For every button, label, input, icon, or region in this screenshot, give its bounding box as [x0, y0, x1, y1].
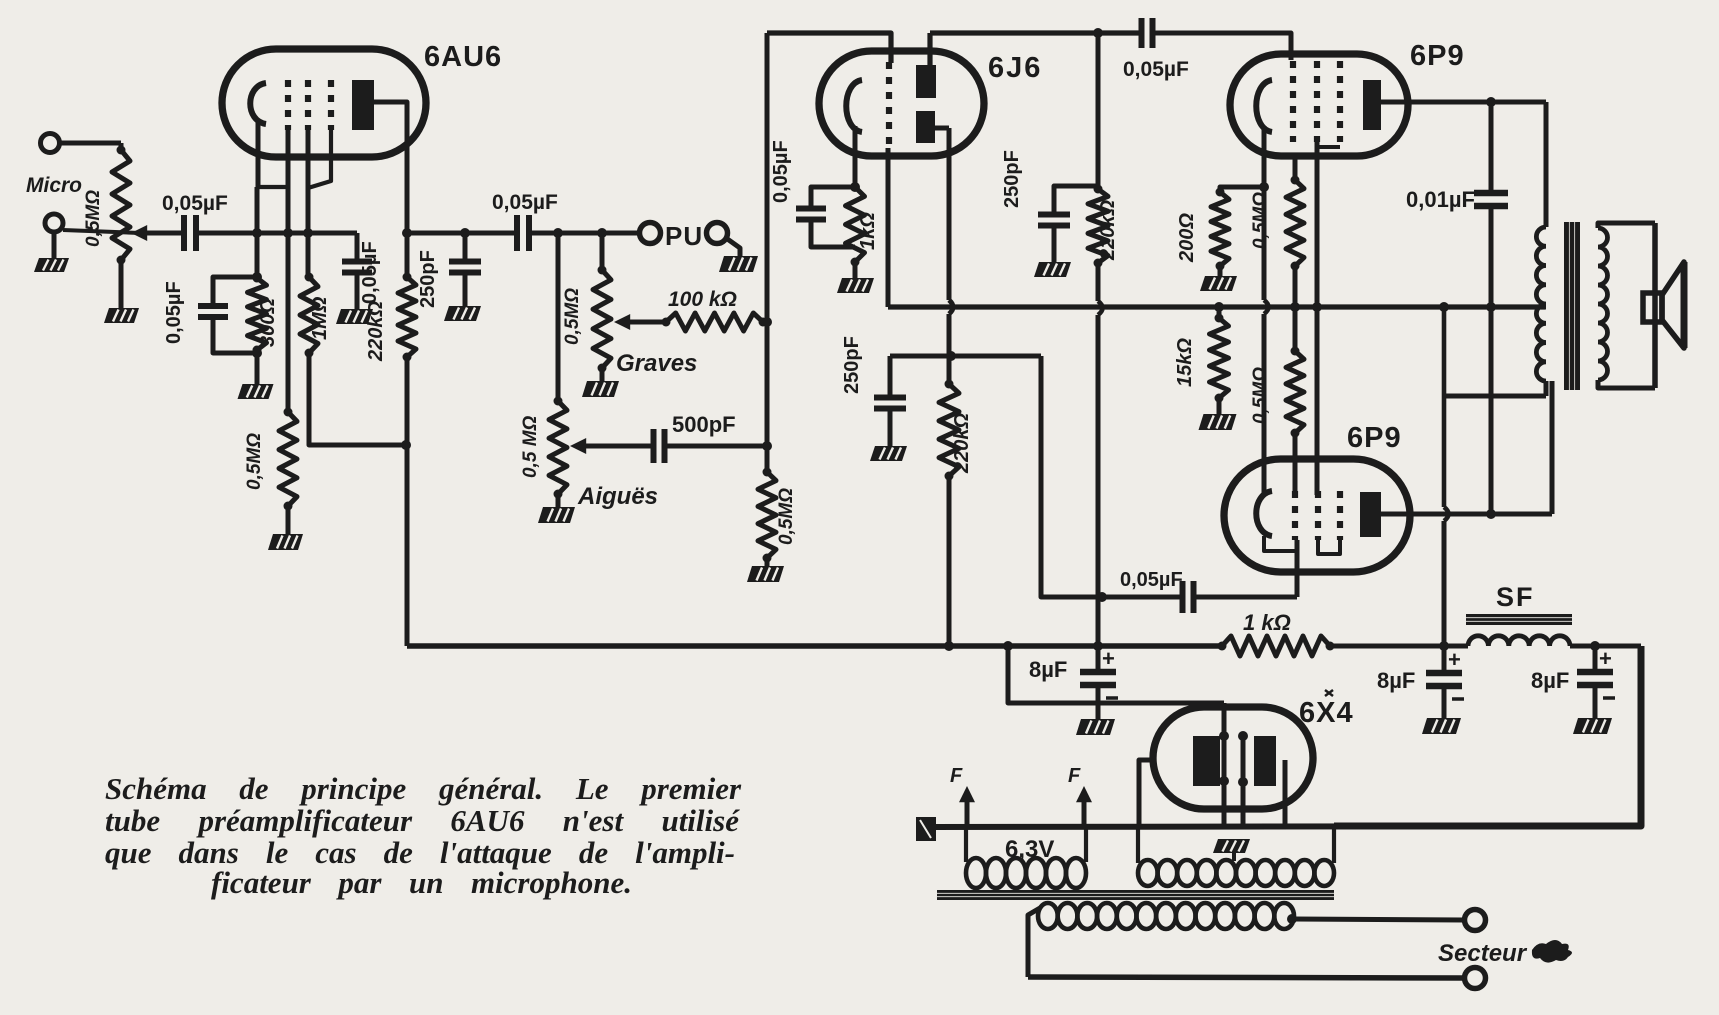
- resistor 0,5M (6AU6 grid leak): [279, 412, 297, 506]
- wire secteur line 1: [1294, 919, 1464, 920]
- svg-text:0,5 MΩ: 0,5 MΩ: [520, 415, 541, 478]
- resistor 220k (phase splitter): [947, 356, 952, 384]
- ground (6J6 cathode): [853, 262, 858, 278]
- wire B+ from rectifier: [1008, 646, 1224, 703]
- wire plate supply descender corner: [407, 643, 1222, 649]
- grid g1 6P9 no2 (dashed): [1292, 491, 1298, 540]
- F arrow 2: [1082, 798, 1087, 827]
- grid g3 6P9 no1 (dashed): [1337, 61, 1343, 142]
- resistor 0,5M (PU grid leak): [758, 472, 776, 558]
- svg-text:Graves: Graves: [616, 350, 697, 377]
- potentiometer 0.5M (micro volume): [112, 150, 130, 260]
- svg-text:0,5MΩ: 0,5MΩ: [83, 190, 104, 247]
- grid g1 6P9 no1 (dashed): [1290, 61, 1296, 142]
- ornament after Secteur: [1532, 940, 1572, 963]
- capacitor 250pF (6J6 plate1): [1038, 212, 1070, 218]
- wire 6J6 cathode pin: [853, 126, 858, 187]
- speaker frame: [1652, 223, 1658, 388]
- capacitor 0,05uF (top coupling): [1139, 18, 1145, 48]
- wire OPT secondary bottom to speaker: [1598, 380, 1655, 388]
- ground (8uF no2): [1422, 718, 1461, 734]
- resistor 300 ohm: [248, 278, 267, 350]
- winding HV secondary: [1038, 903, 1058, 929]
- wire OPT secondary top to speaker: [1598, 223, 1655, 228]
- resistor 0,5M no1: [1293, 156, 1298, 180]
- mic input terminal (hot): [41, 134, 60, 153]
- ground (PU): [726, 238, 740, 256]
- resistor 220k (6J6 plate load): [1096, 33, 1101, 189]
- plate 6P9 no1: [1363, 80, 1381, 130]
- wire plate2 riser to y356 line: [947, 128, 952, 300]
- plate 1 6J6: [916, 65, 936, 98]
- capacitor 0,05uF (6AU6 cathode bypass): [213, 277, 257, 306]
- svg-text:1kΩ: 1kΩ: [857, 212, 879, 250]
- tube 6AU6 envelope: [222, 49, 426, 157]
- tube 6X4 envelope: [1153, 707, 1313, 809]
- svg-text:1MΩ: 1MΩ: [309, 296, 331, 340]
- wire OPT primary top lead: [1544, 102, 1549, 227]
- winding 6,3V: [964, 827, 968, 862]
- plate left 6X4: [1193, 736, 1220, 786]
- PU terminal right: [707, 223, 728, 244]
- svg-text:220kΩ: 220kΩ: [1097, 200, 1119, 261]
- ground (mic sleeve): [34, 258, 69, 272]
- svg-text:6P9: 6P9: [1410, 40, 1465, 72]
- OPT secondary coil: [1598, 228, 1608, 380]
- svg-text:6J6: 6J6: [988, 52, 1042, 84]
- capacitor 8uF no1: [1096, 646, 1101, 672]
- ground (aigues pot): [556, 494, 561, 507]
- speaker cone: [1662, 262, 1684, 348]
- svg-text:6AU6: 6AU6: [424, 41, 502, 73]
- wire plate riser to OPT bottom: [1550, 381, 1555, 514]
- secteur terminal 2: [1465, 968, 1486, 989]
- resistor 220k (6AU6 plate load): [405, 233, 410, 277]
- svg-text:SF: SF: [1496, 582, 1535, 612]
- grid g1 6AU6 (dashed): [285, 80, 291, 130]
- plate 6AU6: [352, 80, 374, 130]
- wire pin jog cathode-g1: [257, 185, 288, 189]
- tube 6P9 no2 envelope: [1224, 459, 1410, 572]
- wire g2 line to plate node: [309, 353, 406, 445]
- wiper arrow graves + resistor 100k: [614, 314, 630, 330]
- wire 0,05uF line to 6P9 no2 grid: [1041, 356, 1102, 597]
- svg-text:6P9: 6P9: [1347, 422, 1402, 454]
- speaker voice coil: [1643, 293, 1662, 322]
- wire cathode link to 6P9 no2: [1262, 187, 1267, 300]
- capacitor 250pF (6J6 grid): [888, 356, 893, 397]
- tube 6J6 envelope: [819, 51, 984, 156]
- svg-text:Secteur: Secteur: [1438, 940, 1528, 967]
- transformer core: [937, 890, 1334, 900]
- resistor 15k: [1217, 307, 1222, 318]
- svg-text:Schéma de principe général.: Schéma de principe général. Le premier: [105, 771, 742, 806]
- wire secteur line 2: [1028, 977, 1464, 978]
- plate 6P9 no2: [1360, 492, 1381, 537]
- svg-text:220kΩ: 220kΩ: [951, 413, 973, 474]
- wire grid feed 6P9 no1: [1289, 33, 1294, 60]
- svg-text:0,5MΩ: 0,5MΩ: [1250, 367, 1271, 424]
- wire 6X4 cathode center line: [1222, 703, 1227, 827]
- cathode 6J6: [846, 80, 862, 132]
- wire OPT center tap: [1491, 305, 1546, 310]
- resistor 1k (filter): [1222, 636, 1330, 656]
- wire cathode node: [255, 187, 260, 278]
- wire B+ riser (screen bus to filter): [1442, 307, 1447, 507]
- grid g3 6P9 no2 (dashed): [1337, 491, 1343, 540]
- svg-text:0,5MΩ: 0,5MΩ: [776, 488, 797, 545]
- resistor 200 ohm: [1220, 187, 1264, 192]
- ground (8uF no3): [1573, 718, 1612, 734]
- wire coupling cap to PU: [529, 231, 639, 236]
- svg-text:200Ω: 200Ω: [1176, 213, 1198, 263]
- svg-text:tube préamplificateur 6AU6: tube préamplificateur 6AU6 n'est utilisé: [105, 803, 740, 838]
- ground (grid leak): [286, 506, 291, 534]
- capacitor 8uF no3: [1593, 646, 1598, 672]
- cathode 6P9 no2: [1256, 491, 1272, 536]
- wire 6P9 no1 plate line: [1381, 100, 1546, 105]
- heater line: [936, 826, 1641, 827]
- wire filter bus mid: [1330, 644, 1468, 649]
- svg-text:250pF: 250pF: [417, 250, 439, 308]
- svg-text:0,5MΩ: 0,5MΩ: [1250, 192, 1271, 249]
- wire tone output riser: [765, 33, 770, 472]
- svg-text:220kΩ: 220kΩ: [365, 301, 387, 362]
- OPT primary coil: [1536, 227, 1546, 381]
- svg-text:F: F: [1068, 765, 1081, 787]
- wire mic cap to grid: [196, 231, 357, 236]
- svg-text:+: +: [1102, 646, 1115, 671]
- capacitor 0,05uF (6J6 cathode bypass): [811, 187, 855, 208]
- svg-text:0,5MΩ: 0,5MΩ: [244, 433, 265, 490]
- svg-text:1 kΩ: 1 kΩ: [1243, 610, 1291, 635]
- tube 6P9 no1 envelope: [1230, 54, 1408, 156]
- potentiometer 0,5M Graves: [593, 270, 611, 368]
- svg-text:0,05µF: 0,05µF: [163, 281, 185, 344]
- resistor 0,5M no2: [1293, 307, 1298, 351]
- capacitor 0,01uF: [1489, 102, 1494, 193]
- svg-text:100 kΩ: 100 kΩ: [668, 288, 737, 311]
- grid g2 6AU6 (dashed): [305, 80, 311, 130]
- wire 6P9 no1 cathode line: [1262, 126, 1267, 187]
- svg-text:0,5MΩ: 0,5MΩ: [562, 288, 583, 345]
- svg-text:Micro: Micro: [26, 174, 82, 197]
- wire pin jog g3-g2: [308, 130, 331, 188]
- mic input terminal (sleeve): [45, 214, 63, 232]
- plate right 6X4: [1254, 736, 1276, 786]
- ground (200 ohm): [1218, 266, 1223, 276]
- wire HV left end down: [1028, 908, 1040, 977]
- svg-text:0,05µF: 0,05µF: [770, 140, 792, 203]
- svg-text:250pF: 250pF: [1001, 150, 1023, 208]
- wiper arrow (micro pot): [140, 231, 183, 236]
- svg-text:250pF: 250pF: [841, 336, 863, 394]
- OPT core: [1564, 222, 1580, 390]
- capacitor 0,05uF (PU coupling): [514, 215, 520, 251]
- wire return loop right side: [1334, 646, 1641, 826]
- wire top bus left: [767, 33, 891, 63]
- wire 220k down to filter bus: [1096, 263, 1101, 301]
- wire 6J6 grid down to bus: [886, 148, 891, 307]
- svg-text:0,05µF: 0,05µF: [162, 192, 228, 215]
- wire 250pF branch (plate1): [1054, 186, 1097, 214]
- wire g2 pin down: [306, 130, 311, 277]
- ground (PU grid leak): [765, 558, 770, 566]
- ground (graves pot): [600, 368, 605, 381]
- wire 6P9 no2 plate line: [1381, 512, 1552, 517]
- wire top bus right: [1153, 33, 1291, 57]
- PU terminal left: [640, 223, 661, 244]
- grid g3 6AU6 (dashed): [328, 80, 334, 130]
- svg-text:500pF: 500pF: [672, 412, 736, 437]
- capacitor 250pF (6AU6 plate): [463, 233, 468, 261]
- ground (micro pot bottom): [119, 260, 124, 308]
- cathode 6P9 no1: [1256, 80, 1272, 132]
- svg-text:0,05µF: 0,05µF: [359, 241, 381, 304]
- svg-text:ficateur par un microphone.: ficateur par un microphone.: [211, 865, 632, 900]
- svg-text:+: +: [1448, 647, 1461, 672]
- wire plate to coupling cap: [407, 231, 517, 236]
- wire filter bus right: [1570, 644, 1641, 649]
- SF core: [1466, 614, 1572, 625]
- choke SF: [1468, 636, 1570, 646]
- wire OPT primary bottom link: [1445, 394, 1546, 399]
- wire 6X4 left side hook: [1139, 760, 1153, 827]
- grid g2 6P9 no1 (dashed): [1314, 61, 1320, 142]
- svg-text:0,05µF: 0,05µF: [492, 191, 558, 214]
- svg-text:8µF: 8µF: [1531, 668, 1569, 693]
- ground (250pF 6J6): [870, 446, 907, 461]
- wire 6P9 no2 bottom brackets: [1264, 536, 1295, 551]
- wire 6P9 no1 g3 bracket: [1317, 145, 1340, 149]
- grid g2 6P9 no2 (dashed): [1315, 491, 1321, 540]
- wire 6X4 filament line 2: [1241, 736, 1246, 827]
- wire screen bus: [888, 304, 1545, 309]
- wire g1 pin down: [286, 130, 291, 412]
- ground (6X4 filament): [1213, 839, 1250, 853]
- svg-text:6X4: 6X4: [1299, 697, 1354, 729]
- svg-text:8µF: 8µF: [1029, 657, 1067, 682]
- resistor 1k (6J6 cathode): [846, 187, 865, 262]
- capacitor 8uF no2: [1442, 646, 1447, 673]
- svg-text:300Ω: 300Ω: [257, 298, 279, 347]
- svg-text:0,01µF: 0,01µF: [1406, 187, 1475, 212]
- F arrow 1: [965, 798, 970, 827]
- ground (250pF 6AU6): [444, 306, 481, 321]
- wire 220k to B+ corner: [405, 357, 410, 646]
- ground (250pF plate1): [1034, 262, 1071, 277]
- grid 6J6 (dashed): [886, 62, 892, 148]
- svg-text:Aiguës: Aiguës: [577, 483, 658, 510]
- svg-text:0,05µF: 0,05µF: [1123, 58, 1189, 81]
- wire 6AU6 cathode pin: [256, 120, 261, 187]
- terminal block (chassis F): [916, 817, 936, 841]
- capacitor 0,05uF (mic coupling): [181, 215, 187, 251]
- wire aigues pot top: [556, 233, 561, 401]
- wire screen line 6P9: [1315, 142, 1320, 307]
- wire y356 branch line: [890, 354, 1041, 359]
- wire 6AU6 plate to descender: [374, 102, 407, 233]
- plate 2 6J6: [916, 111, 935, 143]
- svg-text:F: F: [950, 765, 963, 787]
- cathode 6AU6: [250, 83, 266, 124]
- wire graves pot top: [600, 233, 605, 270]
- svg-text:8µF: 8µF: [1377, 668, 1415, 693]
- secteur terminal 1: [1465, 910, 1486, 931]
- wire screen line to 6P9 no2: [1315, 307, 1320, 495]
- wire 6X4 right side hook: [1283, 760, 1288, 827]
- svg-text:PU: PU: [665, 221, 703, 251]
- ground (15k): [1217, 398, 1222, 414]
- svg-text:+: +: [1599, 646, 1612, 671]
- ground (8uF no1): [1076, 719, 1115, 735]
- ground (6AU6 cathode): [255, 350, 260, 384]
- wire 6J6 plate2 line: [935, 126, 949, 131]
- winding rectifier filament: [1136, 827, 1140, 863]
- potentiometer 0,5M Aigues: [549, 401, 567, 494]
- resistor 1M ohm: [300, 277, 318, 353]
- wiper arrow aigues + capacitor 500pF: [570, 438, 586, 454]
- svg-text:15kΩ: 15kΩ: [1174, 338, 1196, 387]
- ground (screen bypass): [336, 309, 373, 324]
- svg-text:0,05µF: 0,05µF: [1120, 569, 1183, 591]
- capacitor 0,05uF (screen bypass): [355, 233, 360, 261]
